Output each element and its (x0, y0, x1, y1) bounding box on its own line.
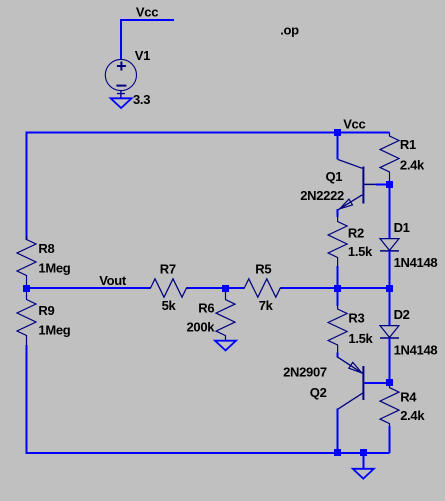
svg-text:Q1: Q1 (326, 169, 343, 184)
svg-text:7k: 7k (259, 298, 274, 313)
svg-text:V1: V1 (135, 48, 150, 63)
svg-text:Vcc: Vcc (343, 117, 365, 132)
svg-text:2N2222: 2N2222 (300, 188, 344, 203)
wire left rail lower (26, 345, 28, 453)
svg-text:R6: R6 (198, 300, 214, 315)
wire R2 bottom to mid rail (337, 266, 339, 288)
wire R3 to Q2 emitter (337, 353, 339, 358)
Q2 collector diagonal (338, 393, 363, 409)
wire R4 bottom to bottom rail (389, 426, 391, 453)
Q1 emitter arrow (340, 199, 353, 209)
wire between R7 and R5 (187, 287, 245, 289)
svg-text:R9: R9 (38, 303, 54, 318)
V1 minus sign (116, 85, 126, 87)
diode D2 (380, 326, 399, 338)
resistor R4 (380, 383, 399, 426)
svg-text:Vout: Vout (99, 273, 127, 288)
wire left rail upper (26, 132, 28, 241)
svg-text:.op: .op (280, 23, 299, 38)
svg-text:R2: R2 (348, 226, 364, 241)
wire R1 node to D1 (389, 184, 391, 238)
ground bottom right (353, 469, 374, 479)
junction at R2/R3 mid rail (334, 285, 341, 292)
svg-text:R3: R3 (348, 310, 364, 325)
svg-text:2.4k: 2.4k (400, 408, 425, 423)
junction at D2/R4/Q2 base (386, 379, 393, 386)
junction at ground stub bottom rail (360, 449, 367, 456)
wire right part of mid rail (280, 287, 389, 289)
junction at Vcc rail and Q1 collector (334, 129, 341, 136)
svg-text:1.5k: 1.5k (348, 244, 373, 259)
Q2 base lead (363, 382, 368, 384)
Q1 emitter diagonal (338, 195, 362, 210)
junction at Q2 collector bottom rail (334, 449, 341, 456)
svg-text:1.5k: 1.5k (348, 331, 373, 346)
svg-text:D1: D1 (394, 220, 410, 235)
svg-text:R7: R7 (160, 262, 176, 277)
Q2 emitter arrow (349, 362, 362, 373)
svg-text:1Meg: 1Meg (38, 323, 70, 338)
diode D1 (380, 239, 399, 251)
Q1 collector diagonal (338, 160, 362, 169)
junction at R6 top (222, 285, 229, 292)
ground under V1 (111, 98, 132, 108)
Q2 emitter diagonal (338, 357, 363, 374)
wire Q1 collector to Vcc rail (337, 133, 339, 160)
wire mid rail to D2 (389, 288, 391, 326)
wire ground stub bottom (362, 453, 364, 469)
V1 plus sign (117, 62, 126, 71)
Q1 base bar (362, 167, 364, 204)
junction at R8/R9/Vout (23, 285, 30, 292)
svg-text:1Meg: 1Meg (38, 261, 70, 276)
resistor R1 (380, 133, 399, 185)
resistor R2 (328, 216, 347, 266)
svg-text:200k: 200k (187, 320, 216, 335)
resistor R9 (17, 290, 36, 346)
wire Q2 collector down (337, 409, 339, 453)
resistor R3 (328, 306, 347, 353)
ground under R6 (215, 341, 236, 351)
wire Vcc stub from V1 top (121, 20, 174, 59)
svg-text:2.4k: 2.4k (400, 157, 425, 172)
svg-text:5k: 5k (162, 298, 177, 313)
svg-text:Vcc: Vcc (136, 4, 158, 19)
junction at D1/D2 mid rail (386, 285, 393, 292)
wire Vout net left (27, 287, 151, 289)
transistor Q1 2N2222 (338, 160, 378, 210)
wire D2 to R4 node (389, 338, 391, 383)
wire Q1 emitter down (337, 209, 339, 217)
junction at R1 bottom / Q1 base / D1 (386, 181, 393, 188)
wire top Vcc rail (27, 132, 390, 134)
voltage source V1 circle (105, 59, 136, 90)
wire bottom rail (26, 452, 390, 454)
svg-text:D2: D2 (394, 307, 410, 322)
V1 bottom pin stub (117, 91, 125, 99)
svg-text:R8: R8 (38, 241, 54, 256)
resistor R7 (149, 279, 189, 297)
wire mid rail to R3 (337, 288, 339, 306)
svg-text:1N4148: 1N4148 (394, 255, 438, 270)
svg-text:R1: R1 (400, 137, 416, 152)
svg-text:2N2907: 2N2907 (283, 365, 327, 380)
resistor R6 (216, 291, 235, 341)
svg-text:Q2: Q2 (310, 385, 327, 400)
resistor R5 (242, 279, 282, 297)
Q1 base lead (363, 183, 377, 185)
svg-text:3.3: 3.3 (133, 92, 150, 107)
svg-text:R5: R5 (255, 262, 271, 277)
transistor Q2 2N2907 (338, 357, 368, 409)
svg-text:R4: R4 (400, 389, 417, 404)
wire Q1 base to node (376, 183, 390, 185)
svg-text:1N4148: 1N4148 (394, 343, 438, 358)
wire Q2 base to node (365, 382, 390, 384)
wire D1 to mid rail (389, 251, 391, 288)
Q2 base bar (362, 366, 364, 400)
resistor R8 (17, 236, 36, 289)
